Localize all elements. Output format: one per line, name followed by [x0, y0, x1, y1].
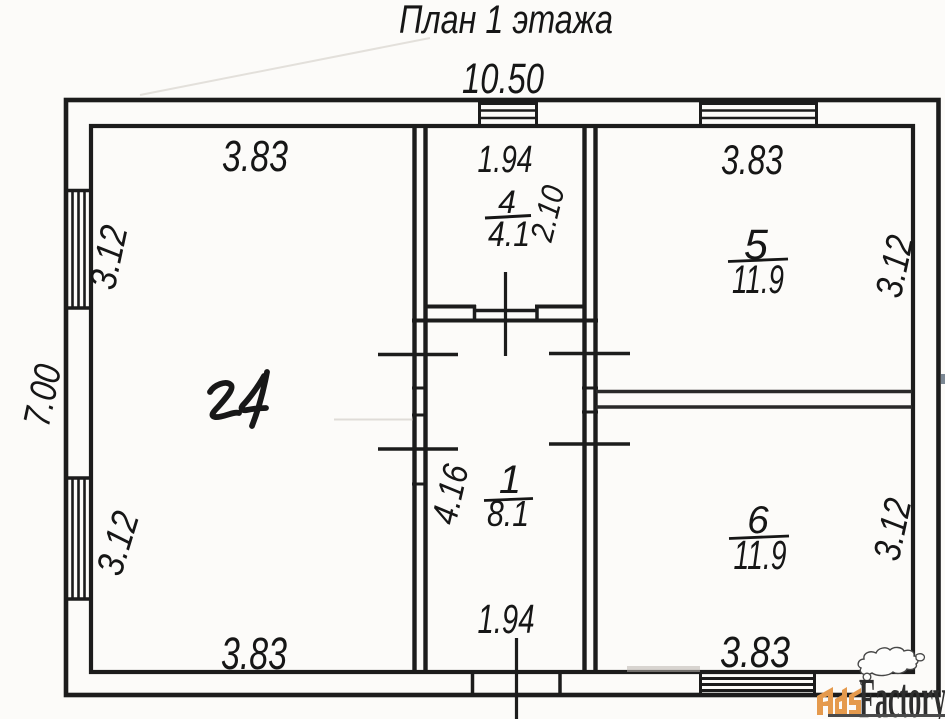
room 6 fraction bar	[729, 536, 789, 539]
V2 jamb b	[582, 411, 598, 414]
wall H2 rooms 5/6 divider lower line	[596, 405, 912, 409]
wall V1 right line	[423, 126, 427, 672]
V2 tick lower	[549, 442, 630, 446]
V1 tick upper	[378, 353, 458, 357]
faint scan streak	[140, 38, 430, 95]
svg-text:3.83: 3.83	[721, 136, 783, 183]
bottom dimension witness line	[515, 638, 518, 719]
room4 dimension witness line	[504, 272, 507, 356]
V1 jamb c	[412, 483, 427, 486]
V1 tick lower	[378, 447, 458, 451]
room4 door sill line	[474, 309, 538, 313]
window W2 left wall lower	[64, 477, 93, 599]
V1 jamb b	[412, 414, 427, 417]
watermark cloud trail puffs	[863, 673, 871, 681]
svg-text:План 1 этажа: План 1 этажа	[399, 0, 613, 42]
wall H2 rooms 5/6 divider upper line	[596, 390, 912, 394]
V2 jamb a	[582, 387, 598, 390]
svg-text:Factory: Factory	[859, 667, 945, 719]
window W4 top wall right	[699, 101, 818, 127]
window W5 bottom wall	[699, 671, 816, 696]
wall H1a room4 bottom right segment	[535, 305, 585, 309]
watermark underline	[828, 714, 945, 717]
wall V2 right line	[593, 126, 597, 672]
svg-text:1.94: 1.94	[478, 139, 533, 181]
bottom door jamb right	[558, 671, 562, 696]
svg-text:4.1: 4.1	[488, 215, 530, 254]
svg-text:10.50: 10.50	[462, 55, 544, 103]
inner wall	[91, 126, 913, 672]
room 24 handwritten number	[210, 372, 267, 426]
watermark ads (orange)	[817, 687, 861, 715]
room 5 fraction bar	[728, 259, 788, 262]
faint pencil tick left of V1	[334, 419, 413, 421]
svg-text:3.83: 3.83	[221, 628, 287, 679]
V2 tick upper	[549, 352, 630, 356]
room4 door jamb left	[473, 305, 477, 322]
V1 jamb a	[412, 387, 427, 390]
svg-text:3.83: 3.83	[720, 628, 790, 677]
room4 door jamb right	[535, 305, 539, 322]
room 1 fraction bar	[484, 499, 533, 501]
svg-text:1.94: 1.94	[478, 596, 535, 642]
svg-text:8.1: 8.1	[487, 493, 529, 534]
wall V1 left line	[412, 126, 416, 672]
window W1 left wall upper	[64, 190, 93, 308]
svg-text:11.9: 11.9	[734, 532, 787, 578]
outer wall	[66, 100, 939, 695]
scan grey bar near bottom window	[627, 666, 700, 672]
wall H1a room4 bottom left segment	[424, 305, 476, 309]
watermark cloud	[858, 647, 924, 685]
svg-text:11.9: 11.9	[732, 258, 784, 302]
room 4 fraction bar	[485, 216, 531, 219]
svg-text:3.83: 3.83	[222, 132, 288, 181]
wall V2 left line	[582, 126, 586, 672]
bottom door jamb left	[471, 671, 475, 696]
wall H1b corridor top	[412, 319, 598, 323]
window W3 top wall center	[478, 101, 538, 127]
scanner mark right edge	[941, 374, 945, 384]
